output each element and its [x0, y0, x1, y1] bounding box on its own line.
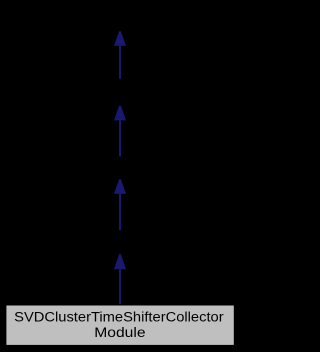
inheritance arrow 3 head [114, 179, 126, 194]
inheritance arrow 4 (bottom edge) head [114, 254, 126, 269]
inheritance arrow 3 shaft [119, 194, 121, 230]
class node box fill [6, 306, 233, 345]
inheritance arrow 1 (topmost edge) head [114, 31, 126, 46]
svg-text:SVDClusterTimeShifterCollector: SVDClusterTimeShifterCollector [14, 309, 224, 325]
inheritance arrow 2 shaft [119, 120, 121, 156]
inheritance arrow 2 head [114, 106, 126, 121]
inheritance arrow 1 (topmost edge) shaft [119, 46, 121, 79]
svg-text:Module: Module [94, 325, 145, 341]
inheritance arrow 4 (bottom edge) shaft [119, 269, 121, 305]
class node box border: SVDClusterTimeShifterCollectorModule [5, 304, 235, 346]
